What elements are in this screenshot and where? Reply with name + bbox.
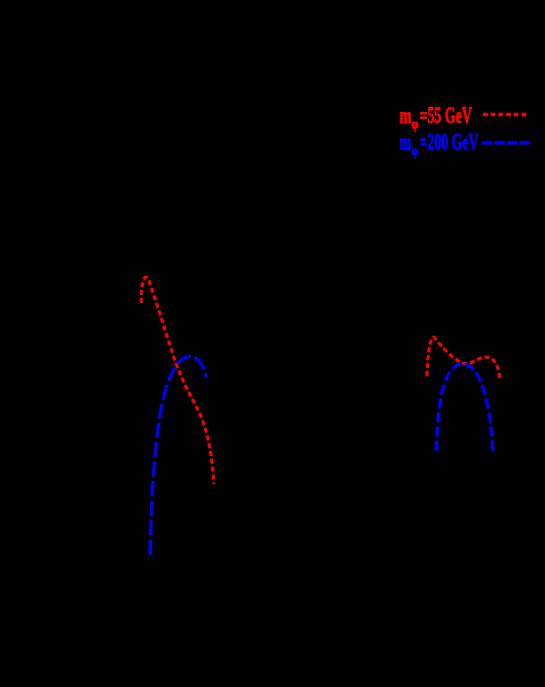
legend label m_phi=200 GeV (blue)	[400, 130, 479, 160]
svg-text:=200 GeV: =200 GeV	[420, 130, 479, 155]
curve right panel blue dashed (m=200)	[437, 364, 494, 454]
curve left panel red dashed (m=55)	[141, 277, 214, 484]
svg-text:φ: φ	[412, 118, 419, 133]
curve right panel red dashed (m=55)	[427, 337, 500, 380]
legend line blue dashed	[482, 141, 530, 144]
legend label m_phi=55 GeV (red)	[400, 103, 473, 133]
svg-text:φ: φ	[412, 145, 419, 160]
svg-text:m: m	[400, 103, 412, 128]
curve left panel blue dashed (m=200)	[150, 357, 206, 556]
svg-text:m: m	[400, 130, 412, 155]
legend line red dashed	[483, 113, 527, 116]
svg-text:=55 GeV: =55 GeV	[420, 103, 473, 128]
